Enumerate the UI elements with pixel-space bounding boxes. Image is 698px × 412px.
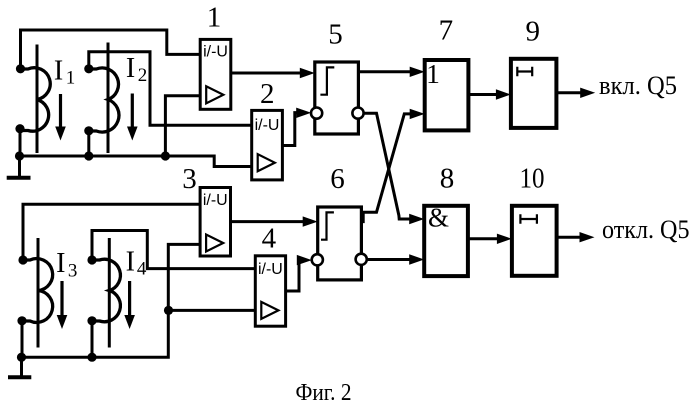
transformer winding I3 primary conductor — [37, 238, 40, 348]
wire block3 output to block6 input1 — [231, 220, 305, 223]
junction dot ground bus bottom at coil3 — [17, 353, 26, 362]
OR gate block U7 — [425, 60, 469, 130]
svg-text:i/-U: i/-U — [203, 44, 228, 61]
wire block5 output1 to block7 input1 — [358, 70, 412, 73]
svg-text:2: 2 — [260, 78, 275, 110]
junction dot coil4 top — [87, 255, 96, 264]
inverted output bubble U5 — [352, 108, 363, 119]
transformer winding I4 secondary coil — [92, 259, 120, 322]
arrowhead into block5 inverting bubble — [296, 108, 311, 118]
svg-text:вкл. Q5: вкл. Q5 — [599, 70, 677, 100]
wire coil4 bottom to ground bus — [91, 321, 94, 357]
svg-text:8: 8 — [440, 162, 455, 194]
wire block3 input2 to ground bus bottom — [21, 244, 200, 357]
converter block U1 (i/-U) — [200, 39, 231, 109]
junction dot coil1 top — [16, 64, 25, 73]
current arrow I4 — [128, 281, 131, 316]
svg-text:5: 5 — [328, 19, 343, 51]
svg-text:i/-U: i/-U — [203, 192, 228, 209]
junction dot ground bus top at coil1 — [15, 151, 24, 160]
pulse shaper block U10 — [512, 206, 557, 276]
junction dot coil2 top — [84, 64, 93, 73]
svg-text:I2: I2 — [126, 53, 147, 86]
arrowhead output otkl — [580, 232, 595, 242]
converter block U2 (i/-U) — [252, 110, 283, 179]
transformer winding I1 secondary coil — [21, 68, 51, 131]
junction dot block3/block4 input2 feed — [164, 306, 173, 315]
svg-text:I4: I4 — [126, 246, 147, 279]
junction dot coil2 bottom — [84, 126, 93, 135]
comparator block U6 — [318, 207, 362, 280]
junction dot ground bus top at block1 feed — [161, 151, 170, 160]
svg-text:I1: I1 — [54, 55, 75, 88]
transformer winding I4 primary conductor — [108, 238, 111, 348]
arrowhead into block6 inverting bubble — [297, 255, 312, 265]
pulse shaper block U9 — [511, 59, 557, 128]
svg-text:откл. Q5: откл. Q5 — [602, 214, 690, 244]
svg-text:7: 7 — [439, 15, 454, 47]
wire coil1 bottom to ground bus — [19, 130, 22, 157]
transformer winding I2 primary conductor — [107, 43, 110, 154]
inverting input bubble U5 — [311, 108, 322, 119]
wire block10 output to node otkl — [557, 236, 580, 239]
arrowhead into block7 input2 — [410, 109, 425, 119]
wire block1 output to block5 input1 — [231, 72, 304, 75]
converter block U3 (i/-U) — [200, 188, 230, 257]
svg-text:1: 1 — [426, 58, 440, 89]
svg-text:6: 6 — [330, 163, 345, 195]
wire bus coil2-top to block2 input1 — [89, 52, 252, 126]
transformer winding I3 secondary coil — [23, 259, 53, 323]
junction dot coil1 bottom — [15, 124, 24, 133]
wire junction to block4 input2 — [169, 309, 256, 312]
junction dot ground bus bottom at coil4 — [87, 353, 96, 362]
wire block9 output to node vkl — [556, 91, 582, 94]
wire ground bus top section to block2 input2 — [20, 156, 252, 167]
wire block7 output to block9 input — [469, 93, 499, 96]
junction dot coil4 bottom — [87, 316, 96, 325]
current arrow I2 — [131, 94, 134, 128]
arrowhead into block8 input2 — [409, 254, 424, 264]
current arrow I3 — [60, 281, 63, 316]
wire block5 inverted output to block8 input1 (crossing) — [364, 113, 412, 219]
transformer winding I2 secondary coil — [89, 68, 119, 132]
junction dot coil3 top — [18, 255, 27, 264]
ground bottom section — [20, 357, 23, 375]
wire coil3 bottom to ground bus — [21, 321, 24, 357]
inverted output bubble U6 — [356, 254, 367, 265]
arrowhead into block6 input1 — [303, 216, 318, 226]
arrowhead into block5 input1 — [300, 68, 315, 78]
svg-text:10: 10 — [520, 162, 545, 194]
wire bus coil3-top to block3 input1 — [23, 204, 200, 260]
wire coil2 bottom to ground bus — [87, 131, 90, 156]
svg-text:1: 1 — [207, 1, 222, 33]
svg-text:i/-U: i/-U — [258, 261, 283, 278]
wire block6 inverted output to block8 input2 — [367, 258, 411, 261]
wire block4 output to block6 inverting input — [286, 260, 300, 291]
arrowhead into block9 input — [496, 89, 511, 99]
svg-text:9: 9 — [526, 16, 541, 48]
arrowhead into block10 input — [497, 234, 512, 244]
wire block8 output to block10 input — [468, 237, 499, 240]
svg-text:I3: I3 — [56, 248, 77, 281]
arrowhead into block8 input1 — [409, 214, 424, 224]
svg-text:i/-U: i/-U — [255, 117, 280, 134]
svg-text:&: & — [428, 203, 449, 233]
arrowhead into block7 input1 — [410, 67, 425, 77]
svg-text:3: 3 — [182, 163, 197, 195]
wire block6 output1 to block7 input2 (crossing) — [361, 114, 412, 222]
junction dot coil3 bottom — [17, 316, 26, 325]
current arrow I1 — [59, 94, 62, 127]
svg-text:4: 4 — [262, 223, 277, 255]
comparator block U5 — [315, 62, 359, 134]
wire bus coil1-top to block1 input1 — [21, 30, 201, 69]
wire block2 output to block5 inverting input — [282, 113, 299, 146]
ground top section — [18, 156, 21, 176]
AND gate block U8 — [424, 206, 468, 276]
inverting input bubble U6 — [312, 254, 323, 265]
transformer winding I1 primary conductor — [36, 45, 39, 154]
converter block U4 (i/-U) — [255, 256, 285, 326]
wire block1 input2 to ground bus — [165, 96, 200, 156]
wire bus coil4-top to block4 input1 — [92, 231, 255, 269]
svg-text:Фиг. 2: Фиг. 2 — [296, 379, 352, 406]
arrowhead output vkl — [580, 88, 595, 98]
junction dot ground bus top at coil2 — [84, 151, 93, 160]
